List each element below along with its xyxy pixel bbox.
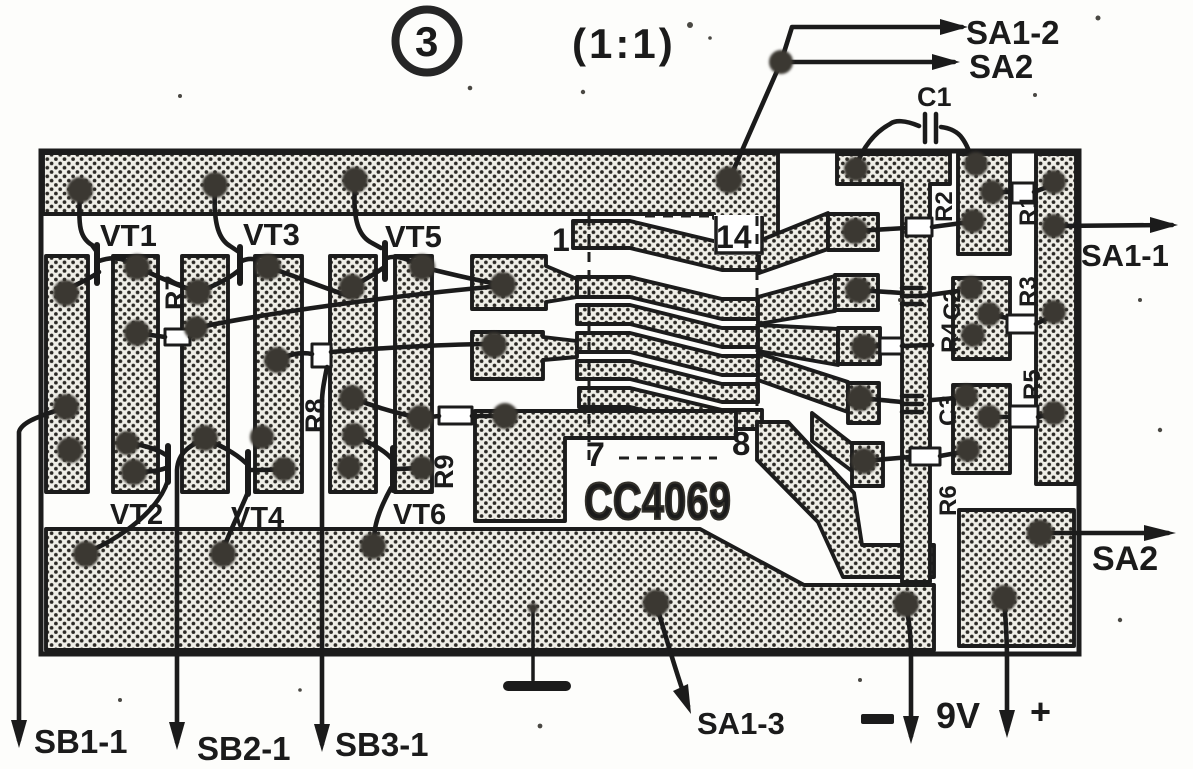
svg-text:R9: R9 [429,454,459,489]
svg-text:R6: R6 [935,485,962,516]
svg-text:3: 3 [415,18,438,65]
svg-text:(1:1): (1:1) [572,20,676,67]
svg-text:C2: C2 [939,289,966,320]
svg-text:R4: R4 [937,322,964,353]
svg-text:SB3-1: SB3-1 [335,726,429,763]
svg-text:R2: R2 [931,191,958,222]
svg-text:R5: R5 [1019,369,1046,400]
svg-text:SA1-2: SA1-2 [966,14,1060,51]
svg-text:VT2: VT2 [110,499,163,531]
svg-text:R3: R3 [1015,276,1042,307]
svg-text:VT4: VT4 [231,502,284,534]
svg-text:SA2: SA2 [1092,540,1158,578]
svg-text:C3: C3 [935,395,962,426]
svg-text:R8: R8 [300,398,330,433]
svg-text:VT3: VT3 [243,217,300,252]
svg-text:9V: 9V [936,695,980,736]
svg-text:1: 1 [552,222,570,258]
svg-text:SB2-1: SB2-1 [197,730,291,767]
svg-text:R7: R7 [160,275,190,310]
svg-text:VT6: VT6 [393,499,446,531]
svg-text:R1: R1 [1015,195,1042,226]
svg-text:SA1-1: SA1-1 [1081,238,1169,273]
svg-text:SA2: SA2 [969,48,1033,85]
svg-text:SB1-1: SB1-1 [34,723,128,760]
svg-text:+: + [1030,691,1051,732]
svg-text:14: 14 [716,219,752,255]
svg-text:8: 8 [732,425,750,462]
svg-text:7: 7 [586,436,605,474]
svg-text:VT1: VT1 [100,218,157,253]
svg-text:VT5: VT5 [385,219,442,254]
svg-text:C1: C1 [917,82,952,112]
svg-text:SA1-3: SA1-3 [697,706,785,741]
svg-text:CC4069: CC4069 [584,472,731,531]
